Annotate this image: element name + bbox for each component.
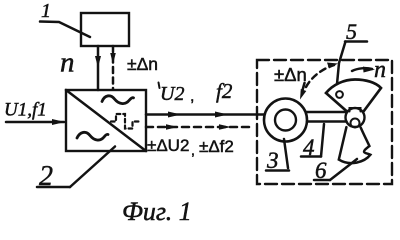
label 1 [40,0,90,37]
svg-text:Фиг. 1: Фиг. 1 [122,197,192,226]
input wire U1,f1 [6,119,65,125]
hub keyway [350,108,361,112]
svg-text:1: 1 [41,0,51,22]
wire n (solid, block 1 to block 2) [95,46,101,90]
output wire ±ΔU2 ±Δf2 (dashed) [146,124,252,129]
rotation arrow n (solid) [352,67,375,73]
svg-text:f2: f2 [216,79,233,103]
svg-text:n: n [60,47,75,79]
output wire U2 f2 (solid) [146,112,264,118]
sector 5 (fan) [326,80,381,112]
svg-text:U1,f1: U1,f1 [4,100,47,121]
label 4 [301,124,324,160]
svg-text:±Δn: ±Δn [274,64,307,85]
block 2 frequency converter [66,90,146,151]
dashed arrow ±Δn (curved, to sector) [306,63,338,88]
svg-text:n: n [374,57,386,83]
hub small circle [351,119,360,128]
label 3 [266,139,289,173]
motor 3 outer circle [264,99,307,142]
svg-text:U2: U2 [160,83,184,105]
svg-text:,: , [191,142,195,158]
bell 6 [339,127,371,163]
pulse symbol (dashed square wave) [111,114,139,129]
motor 3 inner circle [275,110,296,131]
tick before U2 [159,83,160,89]
label 5 [337,19,367,84]
svg-text:±ΔU2: ±ΔU2 [147,136,189,155]
block 1 [81,13,129,46]
svg-text:±Δf2: ±Δf2 [199,137,234,156]
hole in sector [336,91,343,98]
label 2 [37,147,115,193]
svg-text:±Δn: ±Δn [127,54,158,74]
small arrow to motor (±Δn applied) [300,83,306,100]
label 6 [314,158,357,183]
dashed enclosure [257,60,392,184]
shaft 4 (two lines) [306,112,347,122]
sine symbol top [102,96,134,104]
wire ±Δn (dashed, block 1 into block 2) [110,46,116,89]
svg-text:,: , [190,88,194,105]
hub circle [346,108,365,127]
sine symbol bottom [77,132,108,140]
